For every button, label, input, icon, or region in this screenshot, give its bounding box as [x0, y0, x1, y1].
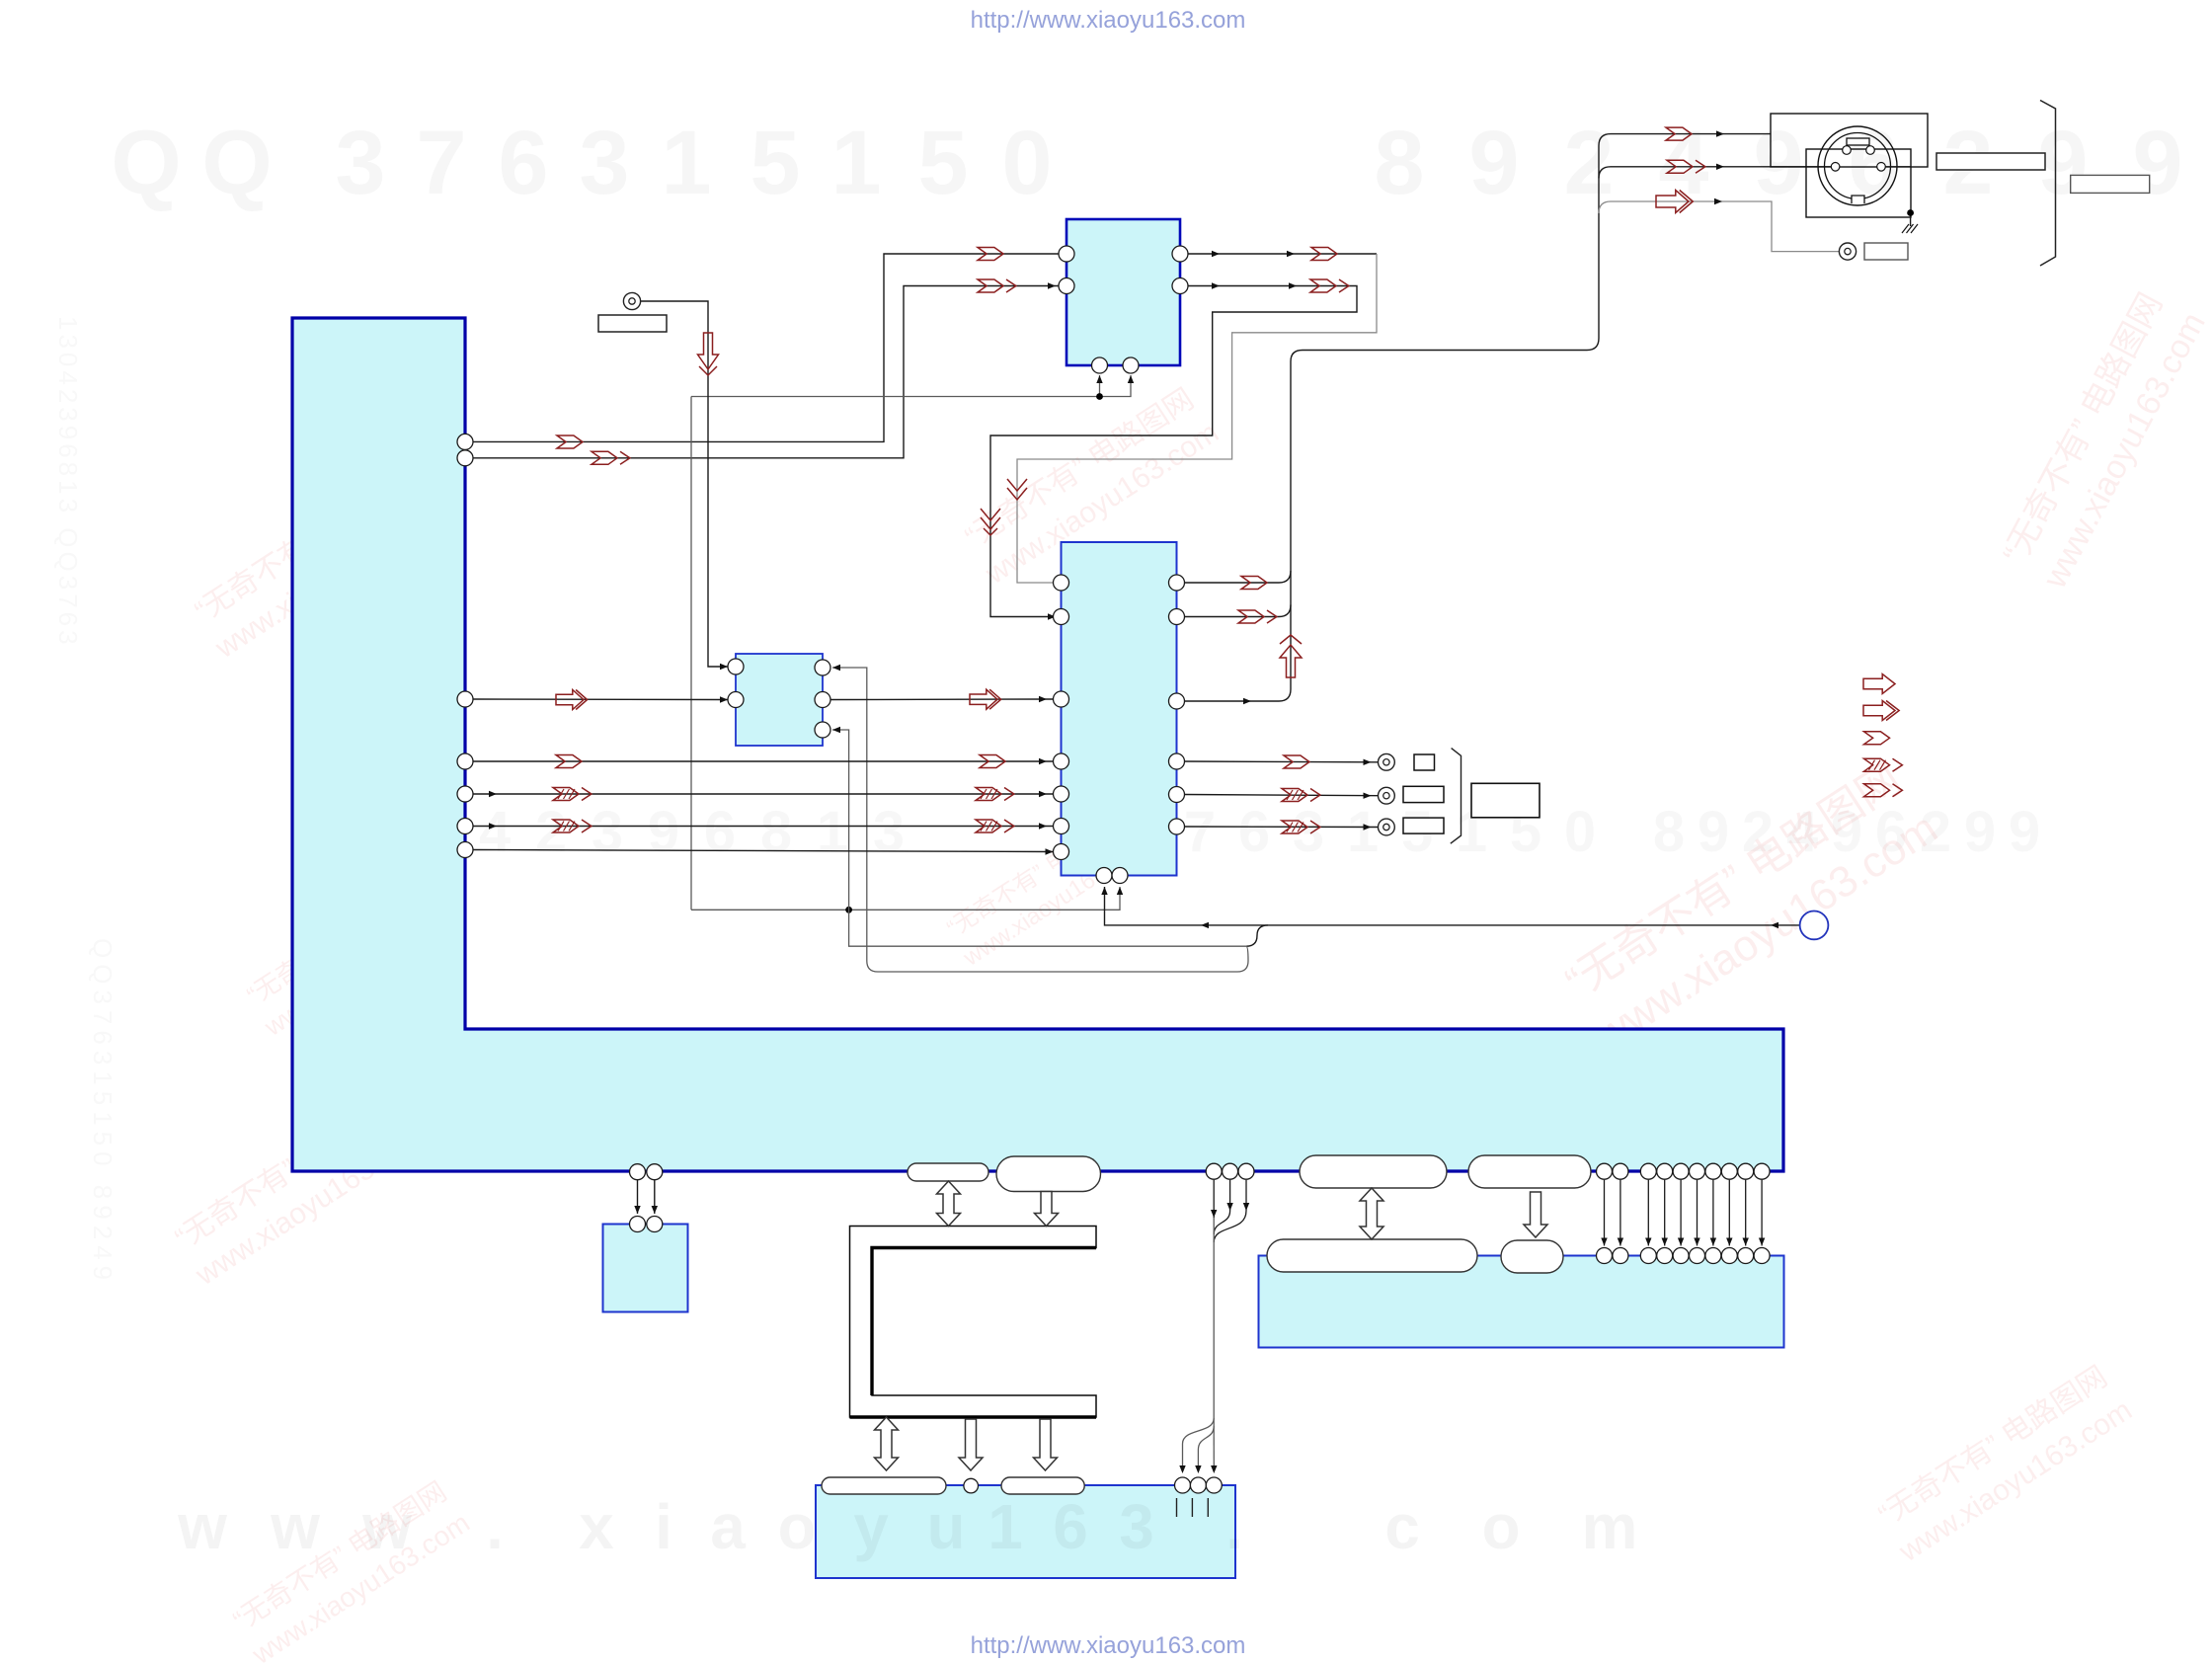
wire row c1 U1 to U4 [473, 760, 1054, 762]
bracket right top [2040, 101, 2056, 267]
legend arrow 4 [1864, 758, 1890, 771]
svg-text:13042396813 QQ3763: 13042396813 QQ3763 [53, 316, 83, 649]
wire U3 right-top pin feed [832, 668, 1237, 972]
svg-text:y: y [853, 1491, 889, 1562]
bubble F2 on band [1468, 1155, 1591, 1188]
svg-text:6: 6 [1238, 800, 1270, 864]
svg-text:0: 0 [1001, 113, 1052, 213]
svg-text:2: 2 [1563, 113, 1614, 213]
pins U3 [728, 659, 744, 674]
RCA jack J2 under S-video [1839, 243, 1856, 260]
red arrow row c1 left [556, 755, 582, 768]
pins U2 [1059, 246, 1074, 262]
label box J3 [1414, 754, 1435, 770]
wire row c3 U1 to U4 [473, 826, 1054, 828]
bubble F1 on band [1300, 1155, 1447, 1188]
ticks under U6 pins [1176, 1498, 1178, 1517]
label box J2 [1864, 243, 1908, 260]
red arrow row c1 right [980, 755, 1005, 768]
svg-text:c: c [1384, 1491, 1420, 1562]
label box S-video [1936, 153, 2045, 170]
svg-text:9: 9 [1698, 800, 1729, 864]
red arrow row c2 right [976, 788, 1001, 801]
bubble F3 on U7 [1267, 1239, 1477, 1272]
wire U3 right-bottom pin feed [832, 730, 1246, 946]
red arrow U4 r2 [1238, 610, 1264, 623]
svg-text:6: 6 [704, 800, 736, 864]
jack J1 circle [623, 292, 640, 309]
S-video key slot [1847, 138, 1869, 145]
wire net U2 out2 path to U4 pin2 [990, 286, 1357, 617]
wire merge curve 1 [1246, 925, 1268, 946]
S-video connector CN2 inner body [1806, 149, 1911, 217]
wire branch composite gray [1599, 201, 1839, 252]
svg-text:3: 3 [1293, 800, 1324, 864]
red vee arrow black vertical [981, 509, 1000, 529]
svg-text:9: 9 [1468, 113, 1519, 213]
wire net U2 out1 gray path to U4 pin1 [1188, 253, 1377, 255]
red arrow row c3 right [976, 820, 1001, 832]
red arrow up on trunk [1280, 645, 1302, 677]
bubble B1 on band [908, 1163, 988, 1181]
wire main clock from connector CN1 [1105, 887, 1800, 925]
red arrow row c3 left [553, 820, 579, 832]
wire U4 to jack J3 [1185, 760, 1379, 763]
red arrow y1 [557, 436, 583, 448]
svg-text:7: 7 [416, 113, 466, 213]
svg-text:8: 8 [1374, 113, 1424, 213]
svg-text:.: . [1225, 1491, 1243, 1562]
pins U1 band bottom edge [630, 1164, 646, 1180]
wires band to U7 ten lines [1604, 1180, 1606, 1246]
red arrow y2 [592, 451, 617, 464]
svg-text:m: m [1582, 1491, 1638, 1562]
legend arrow 3 [1864, 732, 1890, 745]
C-shaped bus frame [850, 1227, 1097, 1418]
red arrow S-video chroma [1667, 160, 1693, 173]
block U7 bottom right IC [1259, 1256, 1784, 1348]
pins U4 bottom [1096, 868, 1112, 884]
ground GND [1902, 224, 1918, 233]
svg-text:9: 9 [2009, 800, 2040, 864]
pin circle on U6 top [964, 1478, 979, 1493]
arrow down frame to U6 pin [959, 1419, 983, 1470]
svg-text:Q: Q [111, 113, 182, 213]
bubble E2 on U6 [1001, 1477, 1084, 1494]
red arrow video row left [556, 690, 584, 710]
svg-text:1: 1 [830, 113, 881, 213]
wire net Y2 U1 to U2 pin2 [473, 286, 1059, 458]
svg-text:1: 1 [661, 113, 711, 213]
jack J4 [1379, 787, 1395, 804]
arrow bus frame to U6 [875, 1417, 899, 1470]
legend arrow 2 [1863, 701, 1895, 721]
svg-text:3: 3 [592, 800, 623, 864]
bracket jacks [1451, 749, 1461, 844]
svg-text:1: 1 [987, 1491, 1023, 1562]
arrow down frame to bubble E2 [1034, 1419, 1058, 1470]
pins U1 right edge [457, 434, 473, 449]
pins U7 top [1597, 1248, 1613, 1264]
red arrow into U2 l1 [978, 248, 1003, 261]
wire row c2 U1 to U4 [473, 793, 1054, 795]
svg-text:QQ376315150 89249: QQ376315150 89249 [88, 938, 118, 1286]
wire U4 to jack J5 [1185, 826, 1379, 829]
svg-text:w: w [177, 1491, 227, 1562]
red arrow U2 out1 [1311, 248, 1337, 261]
svg-text:8: 8 [1653, 800, 1685, 864]
wires band trio to U6 trunk [1213, 1180, 1215, 1218]
svg-text:5: 5 [917, 113, 968, 213]
svg-text:http://www.xiaoyu163.com: http://www.xiaoyu163.com [971, 7, 1246, 34]
wire clock net U2 bottom pins [691, 375, 1131, 397]
svg-text:9: 9 [648, 800, 679, 864]
svg-text:http://www.xiaoyu163.com: http://www.xiaoyu163.com [971, 1632, 1246, 1659]
block U3 switch IC [736, 654, 823, 746]
pins U4 left [1054, 575, 1069, 591]
svg-text:9: 9 [1753, 113, 1803, 213]
svg-text:6: 6 [1053, 1491, 1088, 1562]
red arrow J4 row [1282, 789, 1307, 802]
svg-text:a: a [710, 1491, 746, 1562]
red arrow J3 row [1284, 755, 1309, 768]
S-video pins [1843, 146, 1852, 155]
svg-text:3: 3 [579, 113, 629, 213]
pins U4 right [1169, 575, 1185, 591]
svg-text:6: 6 [498, 113, 548, 213]
block U5 small bottom-left IC [603, 1225, 688, 1312]
watermark vertical gray text left edge [53, 316, 118, 1286]
red arrow video row right [970, 689, 997, 709]
label box jacks group [1471, 783, 1540, 818]
wire row video U3 to U4 [830, 698, 1054, 701]
wire net Y1 U1 to U2 pin1 [473, 254, 1059, 441]
pins U6 top trio [1175, 1477, 1191, 1493]
red arrow composite out [1656, 191, 1689, 213]
wire row c4 U1 to U4 [473, 850, 1054, 852]
wire S-video shield to ground [1885, 166, 1910, 168]
S-video connector CN2 outer body [1771, 114, 1928, 167]
svg-text:Q: Q [201, 113, 273, 213]
connector CN1 clock source circle [1800, 911, 1829, 940]
red arrow down on jack wire [698, 333, 719, 369]
wire row video U1 to U3 [473, 698, 728, 701]
block U6 bottom center IC [816, 1485, 1235, 1578]
legend arrow 1 [1863, 674, 1895, 694]
wires U1 band to U5 [637, 1180, 639, 1214]
bubble F4 on U7 [1501, 1240, 1563, 1273]
arrow down F2 to F4 [1524, 1192, 1547, 1237]
watermark www row bottom overlay [177, 1491, 1637, 1562]
svg-text:4: 4 [479, 800, 511, 864]
svg-text:o: o [777, 1491, 816, 1562]
S-video bottom notch [1852, 196, 1864, 203]
svg-text:3: 3 [335, 113, 385, 213]
svg-text:7: 7 [1184, 800, 1216, 864]
jack J5 [1379, 819, 1395, 835]
wire branch S-video chroma [1599, 167, 1831, 179]
S-video connector face circles [1818, 126, 1897, 205]
red arrow into U2 l2 [978, 279, 1003, 292]
svg-text:o: o [1481, 1491, 1520, 1562]
svg-text:8: 8 [760, 800, 792, 864]
svg-text:3: 3 [873, 800, 905, 864]
watermark digits row middle [310, 800, 2040, 864]
red arrow U2 out2 [1310, 279, 1336, 292]
jack J3 [1379, 753, 1395, 770]
svg-text:i: i [655, 1491, 672, 1562]
label box J4 [1403, 786, 1444, 802]
bubble B2 on band [996, 1156, 1101, 1192]
arrow bus band to frame [937, 1181, 961, 1227]
red vee arrow gray vertical [1007, 479, 1027, 500]
wire clock net horizontal to U4 bottom pin2 [691, 887, 1120, 910]
svg-text:1: 1 [817, 800, 848, 864]
label box right outer [2071, 175, 2150, 193]
pins U5 top [630, 1217, 646, 1232]
svg-text:0: 0 [1564, 800, 1596, 864]
red arrow J5 row [1282, 821, 1307, 833]
red arrow U4 r1 [1241, 577, 1267, 590]
wire trunk U4 right pins to S-video [1185, 134, 1772, 701]
svg-text:w: w [270, 1491, 320, 1562]
wire U4 to jack J4 [1185, 795, 1379, 796]
svg-text:.: . [486, 1491, 504, 1562]
red arrow row c2 left [553, 788, 579, 801]
block U2 top video IC [1066, 219, 1180, 365]
red arrow S-video luma [1666, 127, 1692, 140]
wire RCA jack J1 to U3 pin [641, 301, 728, 667]
svg-text:w: w [361, 1491, 412, 1562]
svg-text:x: x [579, 1491, 614, 1562]
wire trunk merge U4 pin r2 [1185, 605, 1292, 617]
watermark digits row top [111, 113, 2182, 213]
label box J5 [1403, 818, 1444, 833]
svg-text:9: 9 [1964, 800, 1996, 864]
bubble E1 on U6 [822, 1477, 946, 1494]
block U1 main IC left L-shaped [292, 318, 1783, 1171]
svg-text:9: 9 [2132, 113, 2182, 213]
block U4 video encoder IC [1062, 542, 1177, 876]
svg-text:u: u [926, 1491, 965, 1562]
arrow bus F1 to F3 [1360, 1188, 1383, 1239]
svg-text:5: 5 [750, 113, 800, 213]
legend arrow 5 [1864, 784, 1890, 797]
arrow down B2 to frame [1035, 1192, 1059, 1227]
jack J1 label box [598, 315, 667, 332]
wire merge curve 2 [1237, 946, 1248, 972]
wire trunk merge U4 pin r1 [1185, 571, 1292, 583]
svg-text:1: 1 [1347, 800, 1379, 864]
svg-text:3: 3 [1119, 1491, 1154, 1562]
pink diagonal watermarks [187, 455, 454, 665]
